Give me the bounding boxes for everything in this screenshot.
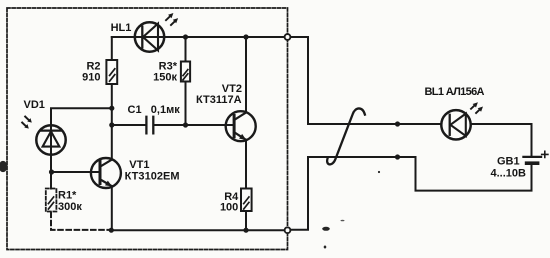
terminal bottom	[285, 227, 291, 233]
svg-text:4...10В: 4...10В	[491, 167, 527, 179]
wire lower line to bottom terminal	[290, 157, 308, 230]
transistor VT2	[226, 111, 256, 141]
svg-text:100: 100	[220, 201, 238, 213]
resistor R1 (dashed, select-on-test)	[46, 189, 57, 212]
svg-text:0,1мк: 0,1мк	[151, 104, 180, 116]
svg-text:КТ3102ЕМ: КТ3102ЕМ	[125, 171, 180, 183]
wire C1 left (y=125)	[112, 124, 146, 126]
enclosure dashed boundary	[7, 8, 288, 250]
wire BL1 to battery top	[471, 124, 532, 156]
wire R4 bottom	[245, 211, 247, 230]
wire VD1 top to R2 line	[51, 108, 112, 188]
wire R3 branch top	[185, 37, 187, 62]
wire R2 branch vertical	[111, 37, 113, 60]
svg-text:VD1: VD1	[24, 99, 45, 111]
svg-text:HL1: HL1	[111, 22, 132, 34]
node bottom rail/VT1 emitter	[109, 228, 114, 233]
battery GB1	[523, 151, 548, 163]
svg-text:КТ3117А: КТ3117А	[196, 94, 242, 106]
svg-text:910: 910	[82, 72, 100, 84]
wire top terminal to right-side drop	[290, 37, 308, 124]
wire top rail (R2 top to right terminal)	[112, 36, 285, 38]
wire R2 bottom to VT1 collector	[111, 84, 113, 159]
node lower cable end	[395, 154, 400, 159]
photodiode VD1	[22, 117, 65, 155]
wire VT2 collector vertical	[245, 37, 247, 113]
svg-text:R3*: R3*	[159, 60, 178, 72]
wire bottom rail	[111, 229, 285, 231]
wire VT1 emitter vertical	[111, 186, 113, 230]
node VD1/VT1 base	[49, 169, 54, 174]
wire VT2 emitter to R4	[245, 140, 247, 189]
node C1 wire/R2 line	[109, 122, 114, 127]
LED BL1	[441, 102, 483, 139]
node rail/VT2 collector	[243, 34, 248, 39]
svg-text:R1*: R1*	[58, 189, 77, 201]
wire R3 bottom to C1 wire	[185, 82, 187, 126]
node rail/R3	[183, 34, 188, 39]
node upper cable end	[395, 121, 400, 126]
svg-text:VT1: VT1	[129, 159, 149, 171]
resistor R3	[181, 62, 190, 82]
node bottom rail/R4	[243, 228, 248, 233]
svg-text:300к: 300к	[58, 201, 82, 213]
resistor R4	[241, 189, 252, 212]
svg-text:GB1: GB1	[497, 155, 520, 167]
scan blob near bottom terminal	[322, 227, 330, 231]
wire C1 right to VT2 base	[154, 124, 234, 126]
svg-text:R2: R2	[86, 60, 100, 72]
wire upper line to BL1	[308, 123, 442, 125]
LED HL1	[135, 13, 178, 52]
terminal top	[285, 34, 291, 40]
wire battery bottom return	[308, 157, 532, 191]
capacitor C1	[146, 117, 153, 134]
wire R1 dashed branch	[51, 213, 109, 230]
node R3/C1 wire	[183, 122, 188, 127]
wire VT1 base	[52, 171, 100, 173]
node VD1/R2 line	[109, 106, 114, 111]
twisted-pair symbol	[327, 108, 365, 164]
transistor VT1	[91, 158, 121, 188]
resistor R2	[106, 60, 117, 84]
svg-text:BL1 АЛ156А: BL1 АЛ156А	[425, 86, 485, 98]
svg-text:150к: 150к	[153, 72, 177, 84]
scan blob left edge	[0, 161, 7, 172]
svg-text:C1: C1	[128, 104, 142, 116]
